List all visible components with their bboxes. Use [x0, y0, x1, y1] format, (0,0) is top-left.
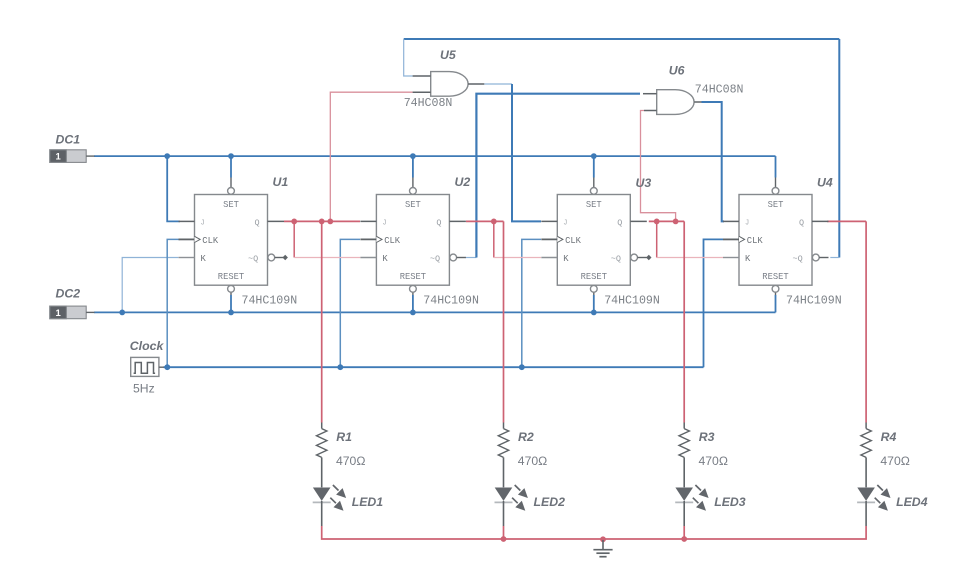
svg-text:~Q: ~Q: [248, 254, 258, 264]
junction DC2/U2.RESET: [410, 310, 416, 316]
wire clock riser to U2 CLK: [340, 239, 360, 367]
svg-text:U6: U6: [669, 64, 685, 78]
flip-flop U3 74HC109N: [541, 188, 647, 293]
svg-text:74HC109N: 74HC109N: [242, 295, 298, 308]
wire clock bus horizontal: [164, 366, 704, 368]
flip-flop U2 74HC109N: [360, 188, 466, 293]
DC source DC2: [50, 306, 95, 319]
wire U2 K link: [294, 257, 360, 259]
svg-text:RESET: RESET: [581, 272, 607, 282]
wire U4 Q output run: [827, 220, 866, 222]
wire U5 output to U3 J: [512, 84, 541, 221]
resistor R1 470 ohm + LED LED1: [313, 423, 346, 527]
wire U3 Q drop to U4 K: [656, 221, 658, 257]
clock source V1 5Hz: [131, 357, 164, 376]
wire U5 output segment: [484, 83, 512, 85]
junction U3.Q/U4.K: [654, 219, 660, 225]
wire top line to U5 input A: [404, 39, 413, 76]
junction U1.Q/U2.K: [291, 219, 297, 225]
resistor R2 470 ohm + LED LED2: [495, 423, 528, 527]
svg-text:5Hz: 5Hz: [133, 381, 155, 395]
flip-flop U4 74HC109N: [723, 188, 829, 293]
wire clock riser to U4 CLK: [704, 239, 724, 367]
and-gate U6 74HC08N: [643, 90, 702, 115]
wire U4 ~Q link: [830, 257, 839, 259]
svg-text:RESET: RESET: [218, 272, 244, 282]
junction U2.Q/U3.K: [491, 219, 497, 225]
svg-text:CLK: CLK: [202, 236, 219, 246]
svg-text:U3: U3: [636, 176, 652, 190]
wire U1 Q output run: [284, 220, 360, 222]
svg-text:J: J: [201, 219, 205, 227]
wire RESET stub U2: [412, 289, 414, 295]
wire right drop to U4 ~Q: [838, 39, 840, 258]
wire clock riser to U1 CLK: [167, 239, 180, 367]
svg-text:CLK: CLK: [384, 236, 401, 246]
wire U3 Q riser to U6 input B: [641, 111, 676, 222]
wire U2 Q drop to U3 K: [493, 221, 495, 257]
wire U2 ~Q link: [465, 257, 476, 259]
junction clock source: [164, 364, 170, 370]
svg-text:R1: R1: [336, 430, 352, 444]
svg-text:J: J: [563, 219, 567, 227]
junction DC2/U1.RESET: [228, 310, 234, 316]
wire LED2 to rail: [503, 526, 505, 539]
wire RESET stub U3: [593, 289, 595, 295]
wire DC1 to U1 SET: [230, 156, 232, 177]
flip-flop U1 74HC109N: [179, 188, 285, 293]
svg-text:~Q: ~Q: [611, 254, 621, 264]
wire SET stub U1: [230, 178, 232, 191]
wire U3 Q to LED3: [683, 221, 685, 422]
svg-text:LED2: LED2: [534, 495, 566, 509]
ground symbol: [593, 540, 612, 557]
wire SET stub U4: [775, 178, 777, 191]
svg-text:1: 1: [55, 308, 61, 319]
junction DC2/U1.K: [119, 310, 125, 316]
svg-text:J: J: [382, 219, 386, 227]
wire DC1 to U2 SET: [412, 156, 414, 177]
svg-text:U5: U5: [440, 48, 456, 62]
wire top feedback U4 ~Q run: [404, 38, 840, 40]
wire DC1 to U3 SET: [593, 156, 595, 177]
svg-text:R2: R2: [518, 430, 534, 444]
svg-text:74HC109N: 74HC109N: [604, 295, 660, 308]
svg-text:K: K: [201, 254, 207, 264]
svg-text:SET: SET: [586, 200, 602, 210]
svg-text:SET: SET: [405, 200, 421, 210]
junction DC1/U2.SET: [410, 153, 416, 159]
svg-text:470Ω: 470Ω: [336, 454, 365, 468]
DC source DC1: [50, 150, 95, 163]
wire DC1 to U1 J input: [167, 156, 180, 221]
junction rail/LED2: [501, 536, 507, 542]
junction DC1/U1.SET: [228, 153, 234, 159]
wire U1 Q to LED1: [321, 221, 323, 422]
wire U2 Q to LED2: [503, 221, 505, 422]
svg-text:Q: Q: [799, 218, 804, 228]
svg-text:1: 1: [55, 152, 61, 163]
wire DC1 bus horizontal: [94, 155, 776, 157]
svg-text:CLK: CLK: [565, 236, 582, 246]
junction clock/U3: [519, 364, 525, 370]
junction rail/ground: [600, 536, 606, 542]
svg-text:~Q: ~Q: [793, 254, 803, 264]
svg-text:R4: R4: [881, 430, 897, 444]
resistor R4 470 ohm + LED LED4: [857, 423, 890, 527]
svg-text:LED4: LED4: [896, 495, 928, 509]
wire U2 ~Q to U6 input A: [476, 94, 640, 258]
wire SET stub U3: [593, 178, 595, 191]
svg-text:U4: U4: [817, 176, 833, 190]
wire DC2 bus horizontal: [94, 311, 776, 313]
svg-text:Q: Q: [436, 218, 441, 228]
wire SET stub U2: [412, 178, 414, 191]
svg-text:470Ω: 470Ω: [699, 454, 728, 468]
wire U2 RESET to DC2: [412, 295, 414, 312]
svg-text:LED3: LED3: [714, 495, 746, 509]
svg-text:470Ω: 470Ω: [518, 454, 547, 468]
svg-text:74HC08N: 74HC08N: [695, 84, 744, 97]
junction rail/LED3: [681, 536, 687, 542]
svg-text:Q: Q: [255, 218, 260, 228]
and-gate U5 74HC08N: [413, 72, 485, 97]
junction U3.Q/U6.B: [673, 219, 679, 225]
svg-text:K: K: [382, 254, 388, 264]
svg-text:DC2: DC2: [56, 287, 81, 301]
junction U1.Q/LED1: [319, 219, 325, 225]
svg-text:~Q: ~Q: [430, 254, 440, 264]
svg-text:DC1: DC1: [56, 133, 81, 147]
resistor R3 470 ohm + LED LED3: [675, 423, 708, 527]
svg-text:RESET: RESET: [400, 272, 426, 282]
svg-text:74HC08N: 74HC08N: [404, 97, 453, 110]
junction DC1/U1.J: [164, 153, 170, 159]
svg-text:74HC109N: 74HC109N: [786, 295, 842, 308]
svg-text:RESET: RESET: [762, 272, 788, 282]
svg-text:K: K: [563, 254, 569, 264]
wire U4 RESET to DC2: [775, 295, 777, 312]
wire U3 Q output run: [649, 220, 684, 222]
wire U6 output to U4 J: [702, 102, 725, 221]
junction clock/U2: [337, 364, 343, 370]
wire U1 Q drop to U2 K: [293, 221, 295, 257]
wire U2 Q output run: [466, 220, 504, 222]
wire U1 Q riser to U5 input B: [330, 92, 412, 221]
wire DC1 to U4 SET: [775, 156, 777, 177]
svg-text:R3: R3: [699, 430, 715, 444]
svg-text:Clock: Clock: [130, 339, 165, 353]
svg-text:74HC109N: 74HC109N: [423, 295, 479, 308]
svg-text:U1: U1: [273, 175, 289, 189]
svg-text:U2: U2: [455, 175, 471, 189]
wire clock riser to U3 CLK: [522, 239, 541, 367]
wire U4 K link: [657, 257, 723, 259]
svg-text:SET: SET: [223, 200, 239, 210]
wire DC2 to U1 K input: [122, 258, 178, 313]
wire U4 Q to LED4: [865, 221, 867, 422]
junction DC2/U3.RESET: [591, 310, 597, 316]
wire LED3 to rail: [683, 526, 685, 539]
terminal U3 ~Q unconnected: [646, 255, 651, 260]
svg-text:470Ω: 470Ω: [880, 454, 909, 468]
svg-text:K: K: [745, 254, 751, 264]
svg-text:J: J: [745, 219, 749, 227]
svg-text:CLK: CLK: [747, 236, 764, 246]
svg-text:Q: Q: [617, 218, 622, 228]
svg-text:SET: SET: [768, 200, 784, 210]
wire RESET stub U4: [775, 289, 777, 295]
wire U3 RESET to DC2: [593, 295, 595, 312]
wire U1 RESET to DC2: [230, 295, 232, 312]
junction DC1/U3.SET: [591, 153, 597, 159]
svg-text:LED1: LED1: [352, 495, 384, 509]
wire RESET stub U1: [230, 289, 232, 295]
wire U3 K link: [494, 257, 541, 259]
junction U1.Q/U5.B: [327, 219, 333, 225]
wire LED1 to ground rail: [322, 526, 866, 539]
terminal U1 ~Q unconnected: [283, 255, 288, 260]
